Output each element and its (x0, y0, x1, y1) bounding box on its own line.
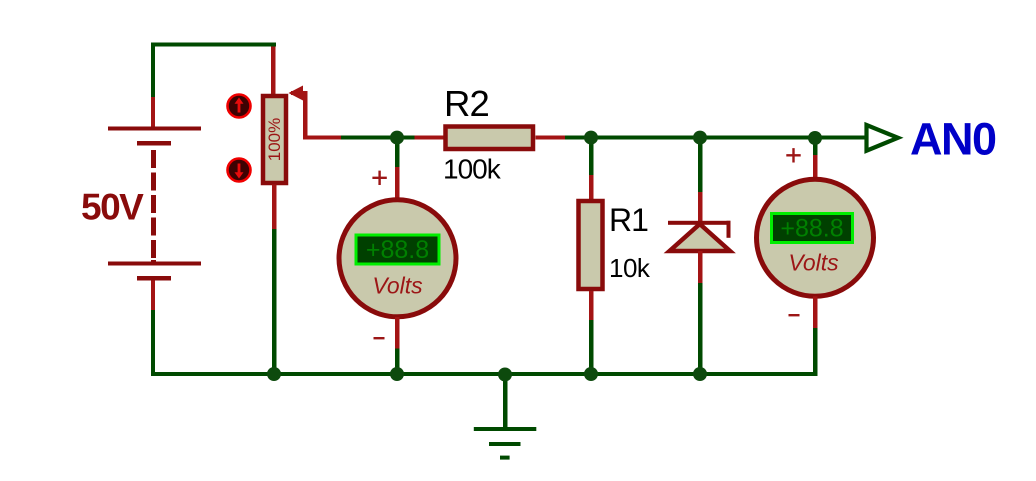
svg-text:100k: 100k (443, 154, 502, 185)
voltmeter V1 display (356, 235, 439, 264)
resistor R2 body (446, 127, 534, 150)
battery BT1: top cell short plate (137, 141, 171, 146)
junction dot bottom rail at zener (693, 367, 707, 381)
wire: top net from battery+ to pot top (151, 43, 276, 100)
wire: left voltmeter bottom pin (395, 317, 400, 349)
wire: battery- down to ground rail (151, 310, 155, 376)
battery BT1: bottom pin (red) (151, 281, 155, 311)
voltmeter V2 body (757, 179, 874, 296)
svg-text:Volts: Volts (788, 250, 839, 276)
potentiometer up button (228, 95, 251, 118)
junction dot bottom rail at ground (498, 368, 512, 382)
svg-text:50V: 50V (81, 187, 144, 228)
junction dot top net at zener (693, 131, 707, 145)
svg-text:AN0: AN0 (910, 114, 996, 165)
voltmeter V2 minus sign (789, 314, 800, 316)
resistor R1 body (579, 201, 603, 289)
svg-text:Volts: Volts (372, 273, 423, 299)
svg-text:10k: 10k (609, 253, 651, 283)
wire: zener top pin (698, 140, 703, 193)
AN0 terminal arrow (867, 125, 899, 151)
battery BT1: bottom cell short plate (137, 276, 171, 281)
voltmeter V1 plus sign (372, 171, 386, 185)
wire: R2 left pin (red) (415, 136, 444, 140)
wire: right voltmeter top pin (813, 140, 818, 156)
wire: R2 right pin (red) (536, 136, 566, 140)
voltmeter V1 body (339, 200, 456, 317)
voltmeter V2 display (772, 214, 853, 243)
junction dot bottom rail at pot (267, 367, 281, 381)
wire: left voltmeter top pin (395, 140, 400, 168)
wire: R1 bottom pin (589, 291, 594, 320)
svg-text:R2: R2 (444, 83, 489, 124)
junction dot bottom rail at R1 (584, 367, 598, 381)
battery BT1: dashed link (151, 150, 156, 262)
junction dot top net at right voltmeter (808, 131, 822, 145)
battery BT1: top cell long plate (108, 127, 201, 131)
wire: wiper net to R2 (green) (341, 136, 416, 140)
svg-text:R1: R1 (609, 202, 648, 238)
zener diode D1 (668, 221, 731, 251)
battery BT1: bottom cell long plate (108, 262, 201, 266)
potentiometer wiper arrow (289, 86, 342, 140)
voltmeter V2 plus sign (786, 148, 800, 162)
junction dot top net at R1 (584, 131, 598, 145)
potentiometer RV1 body (263, 96, 286, 183)
svg-text:+88.8: +88.8 (780, 215, 843, 243)
voltmeter V1 minus sign (374, 337, 385, 339)
junction dot bottom rail at left voltmeter (390, 367, 404, 381)
wire: pot bottom pin (red) (272, 185, 277, 230)
wire: battery top pin (red) (151, 97, 155, 127)
wire: right voltmeter bottom pin (813, 296, 818, 328)
wire: zener bottom pin (698, 251, 703, 283)
wire: pot top pin (red) (271, 47, 276, 96)
wire: pot bottom to ground rail (272, 229, 277, 374)
potentiometer down button (228, 159, 251, 182)
junction dot top net at left voltmeter (390, 131, 404, 145)
wire: R1 top pin (589, 140, 594, 176)
ground symbol (474, 376, 537, 460)
svg-text:100%: 100% (265, 118, 284, 161)
wire: main net R2 to AN0 arrow (green) (565, 136, 866, 140)
svg-text:+88.8: +88.8 (366, 236, 429, 264)
wire: bottom ground rail (151, 372, 817, 376)
